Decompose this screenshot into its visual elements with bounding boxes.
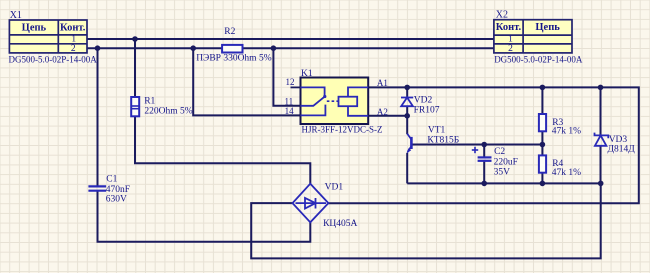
junction net2/C1 bbox=[95, 45, 101, 51]
svg-text:КЦ405А: КЦ405А bbox=[323, 219, 357, 229]
wire R3 top stub bbox=[541, 87, 543, 114]
svg-text:DG500-5.0-02P-14-00A: DG500-5.0-02P-14-00A bbox=[494, 55, 583, 65]
svg-text:A2: A2 bbox=[377, 107, 388, 117]
wire R1 branch down from net1 bbox=[134, 39, 136, 97]
wire VD2 cathode stub bbox=[406, 87, 408, 97]
svg-text:47k 1%: 47k 1% bbox=[552, 168, 581, 178]
junction net1/R1 bbox=[132, 36, 138, 42]
svg-text:HJR-3FF-12VDC-S-Z: HJR-3FF-12VDC-S-Z bbox=[302, 125, 383, 135]
svg-text:12: 12 bbox=[286, 77, 295, 87]
svg-text:VD1: VD1 bbox=[325, 182, 344, 192]
relay K1 pin 12 stub (unconnected) bbox=[291, 86, 301, 88]
relay K1 coil bbox=[339, 87, 369, 115]
svg-text:630V: 630V bbox=[106, 195, 127, 205]
wire net2 R2 right to X2.2 bbox=[243, 47, 495, 49]
bridge rectifier VD1 bbox=[293, 184, 329, 223]
wire VD3 cathode stub bbox=[600, 87, 602, 135]
wire VD3 anode stub bbox=[600, 146, 602, 184]
svg-text:C2: C2 bbox=[494, 147, 505, 157]
junction divider R3/R4 bbox=[540, 142, 546, 148]
svg-text:K1: K1 bbox=[301, 69, 313, 79]
relay K1 body bbox=[301, 78, 369, 125]
svg-text:Конт.: Конт. bbox=[496, 22, 522, 33]
wire R1 bottom to bridge top corner bbox=[135, 116, 310, 183]
svg-text:VD2: VD2 bbox=[414, 95, 433, 105]
svg-text:C1: C1 bbox=[106, 174, 117, 184]
connector X1 bbox=[9, 20, 87, 54]
svg-text:КТ815Б: КТ815Б bbox=[427, 135, 459, 145]
junction net2/pin14 branch bbox=[190, 45, 196, 51]
wire R4 bottom stub bbox=[541, 173, 543, 184]
wire R3 bottom to R4 top bbox=[541, 131, 543, 155]
wire bottom return to bridge left corner bbox=[251, 183, 601, 258]
wire C2 top stub bbox=[483, 145, 485, 158]
wire bottom rail emitter to VD3 bbox=[407, 182, 601, 184]
wire net2 X1.2 to R2 left bbox=[87, 47, 222, 49]
svg-text:47k 1%: 47k 1% bbox=[552, 127, 581, 137]
svg-text:X2: X2 bbox=[496, 10, 508, 21]
capacitor C1 bbox=[88, 186, 106, 190]
wire A2 to VD2/collector node bbox=[368, 115, 407, 117]
svg-text:ПЭВР 330Ohm 5%: ПЭВР 330Ohm 5% bbox=[196, 54, 272, 64]
junction bottom rail/C2 bbox=[481, 181, 487, 187]
wire net1 top rail X1.1 to X2.1 bbox=[87, 38, 494, 40]
svg-text:FR107: FR107 bbox=[414, 105, 440, 115]
wire base to divider node bbox=[412, 144, 543, 146]
relay K1 switch arm with pivot from pin 11 bbox=[301, 95, 327, 106]
svg-text:X1: X1 bbox=[10, 10, 22, 21]
svg-text:35V: 35V bbox=[494, 168, 511, 178]
svg-text:DG500-5.0-02P-14-00A: DG500-5.0-02P-14-00A bbox=[9, 55, 98, 65]
wire A1 top rail to right corner down to bridge right corner bbox=[328, 87, 638, 203]
svg-text:14: 14 bbox=[285, 106, 295, 116]
wire C1 branch down from net2 bbox=[97, 48, 99, 186]
svg-text:R2: R2 bbox=[224, 27, 235, 37]
wire C2 bottom stub bbox=[483, 161, 485, 183]
junction top rail/R3 bbox=[540, 85, 546, 91]
junction top rail/VD3 bbox=[598, 85, 604, 91]
svg-text:11: 11 bbox=[285, 96, 294, 106]
svg-text:R1: R1 bbox=[144, 96, 155, 106]
junction A2/VD2/collector bbox=[404, 113, 410, 119]
resistor R3 bbox=[539, 114, 546, 131]
svg-text:Цепь: Цепь bbox=[22, 22, 47, 33]
svg-text:VT1: VT1 bbox=[428, 126, 446, 136]
capacitor C2 polarized bbox=[478, 157, 492, 160]
wire emitter down to bottom rail bbox=[406, 153, 408, 184]
junction net2/pin11 branch bbox=[271, 45, 277, 51]
zener diode VD3 bbox=[595, 133, 609, 146]
resistor R1 bbox=[131, 97, 139, 116]
svg-text:220uF: 220uF bbox=[494, 157, 518, 167]
junction bottom rail/VD3/return bbox=[598, 181, 604, 187]
connector X2 bbox=[494, 20, 572, 54]
wire VD2 anode stub bbox=[406, 106, 408, 116]
resistor R4 bbox=[539, 155, 546, 172]
svg-text:A1: A1 bbox=[377, 78, 388, 88]
svg-text:Д814Д: Д814Д bbox=[608, 145, 636, 155]
wire collector down from node bbox=[406, 116, 408, 134]
plus sign C2 bbox=[472, 147, 478, 153]
relay K1 actuator dashed link bbox=[327, 100, 339, 102]
svg-text:Конт.: Конт. bbox=[60, 22, 86, 33]
svg-text:220Ohm 5%: 220Ohm 5% bbox=[144, 107, 192, 117]
relay K1 NC contact from pin 12 bbox=[301, 87, 325, 96]
junction bottom rail/R4 bbox=[540, 181, 546, 187]
wire net2 branch down to relay pin 14 bbox=[193, 48, 300, 115]
svg-text:Цепь: Цепь bbox=[535, 22, 560, 33]
transistor VT1 bbox=[407, 134, 412, 154]
wire net2 branch down to relay pin 11 bbox=[273, 48, 300, 106]
relay K1 NO contact from pin 14 bbox=[301, 105, 326, 116]
resistor R2 bbox=[222, 45, 242, 53]
svg-text:2: 2 bbox=[71, 44, 76, 54]
junction A1/VD2 bbox=[404, 85, 410, 91]
junction base/C2 bbox=[481, 142, 487, 148]
diode VD2 bbox=[401, 98, 413, 107]
wire C1 bottom to bridge bottom corner bbox=[98, 191, 311, 242]
svg-text:2: 2 bbox=[508, 44, 513, 54]
